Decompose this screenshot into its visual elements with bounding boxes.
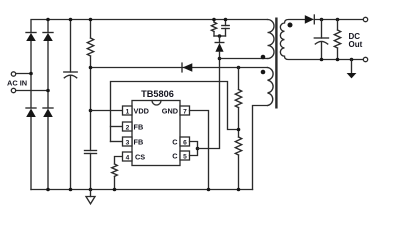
svg-text:4: 4	[126, 154, 130, 161]
node snubber top rail junctions	[212, 18, 216, 22]
transformer T1 core	[275, 18, 277, 109]
wire drain to primary bottom	[198, 59, 220, 149]
svg-text:Out: Out	[349, 40, 363, 49]
diode D6 clamp pointing up	[215, 36, 224, 59]
wire top positive rail	[31, 20, 268, 33]
node AC1 junction	[29, 72, 33, 76]
diode D7 output rectifier pointing right	[305, 15, 366, 24]
node output cap junction top	[320, 18, 324, 22]
svg-text:3: 3	[126, 139, 130, 146]
node aux feed junction	[237, 66, 241, 70]
svg-text:CS: CS	[135, 152, 145, 161]
svg-text:FB: FB	[134, 137, 144, 146]
node top rail junctions	[46, 18, 50, 22]
svg-text:7: 7	[183, 108, 187, 115]
node load resistor junction top	[336, 18, 340, 22]
node AC2 junction	[46, 89, 50, 93]
AC input terminal 2	[11, 88, 15, 92]
resistor R4 FB divider upper	[235, 68, 241, 138]
capacitor C2 VDD	[85, 151, 97, 190]
IC U1 TB5806 body	[132, 101, 180, 166]
snubber resistor R3	[211, 20, 216, 37]
DC output terminal bottom	[363, 57, 367, 61]
transformer T1 secondary winding	[280, 20, 365, 60]
wire FB routing around IC top	[111, 82, 239, 142]
diode D1 bridge upper-left	[26, 33, 36, 42]
resistor R6 load	[334, 20, 340, 60]
wire primary bottom stub	[220, 58, 268, 60]
wire pins 5-6 tie	[190, 142, 198, 156]
pin 4 box	[123, 152, 133, 161]
wire pin7 GND to bottom rail	[190, 111, 209, 190]
diode D5 aux rectifier pointing left	[182, 63, 192, 72]
capacitor C4 output	[314, 20, 328, 60]
svg-text:FB: FB	[134, 122, 144, 131]
ground primary side	[86, 190, 95, 204]
resistor R5 FB divider lower	[235, 137, 241, 190]
pin 5 box	[180, 151, 190, 160]
transformer T1 aux phase dot	[261, 70, 266, 75]
snubber capacitor C3	[222, 20, 229, 37]
pin 3 box	[123, 137, 133, 146]
wire bridge left column	[30, 41, 32, 108]
wire pin3 branch	[111, 141, 123, 143]
svg-text:C: C	[172, 151, 178, 160]
svg-text:VDD: VDD	[134, 106, 149, 115]
wire aux bottom return	[253, 106, 268, 190]
svg-text:2: 2	[126, 124, 130, 131]
diode D2 bridge upper-right	[43, 33, 53, 42]
node snubber bottom junction	[218, 34, 222, 38]
wire bridge right column	[47, 20, 49, 33]
pin 1 box	[123, 106, 133, 115]
node bottom rail junctions	[46, 188, 50, 192]
transformer T1 auxiliary winding	[268, 68, 274, 106]
pin 7 box	[180, 106, 190, 115]
transformer T1 secondary phase dot	[288, 23, 293, 28]
diode D3 bridge lower-left	[26, 108, 36, 117]
wire AC terminal 2 to bridge node	[16, 90, 48, 92]
node drain-primary junction	[218, 57, 222, 61]
wire pin1 VDD	[91, 110, 123, 112]
wire pin4 CS to resistor	[115, 157, 123, 165]
svg-text:6: 6	[183, 139, 187, 146]
node drain tie junction	[196, 147, 200, 151]
pin 6 box	[180, 137, 190, 146]
AC input terminal 1	[11, 72, 15, 76]
svg-text:1: 1	[126, 108, 130, 115]
svg-text:C: C	[172, 137, 178, 146]
diode D4 bridge lower-right	[43, 108, 53, 117]
svg-text:5: 5	[183, 153, 187, 160]
node FB tap junction	[237, 128, 241, 132]
capacitor C1 bulk electrolytic	[64, 20, 77, 190]
node VDD feed junction on column	[89, 66, 93, 70]
wire AC terminal 1 to bridge node	[16, 73, 31, 75]
node output bottom junctions	[320, 58, 324, 62]
IC notch	[152, 101, 161, 106]
ground secondary side	[347, 60, 357, 79]
svg-text:GND: GND	[162, 106, 178, 115]
wire snubber bottom join	[214, 35, 226, 37]
svg-text:AC IN: AC IN	[7, 78, 27, 87]
resistor R2 current sense	[112, 164, 118, 190]
pin 2 box	[123, 122, 133, 131]
transformer T1 primary winding	[268, 20, 275, 59]
resistor R1 startup	[87, 20, 93, 151]
transformer T1 primary phase dot	[261, 55, 266, 60]
DC output terminal top	[363, 17, 367, 21]
wire bottom negative rail	[31, 189, 253, 191]
wire pin2 branch	[111, 126, 123, 128]
wire aux/VDD feed line	[91, 67, 268, 69]
node VDD pin junction	[89, 109, 93, 113]
svg-text:TB5806: TB5806	[141, 89, 174, 99]
